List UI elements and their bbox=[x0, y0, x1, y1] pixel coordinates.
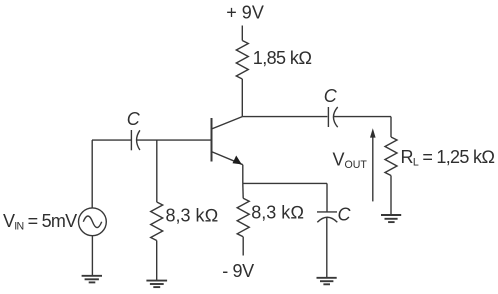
svg-text:1,85 kΩ: 1,85 kΩ bbox=[253, 48, 312, 68]
svg-text:8,3 kΩ: 8,3 kΩ bbox=[166, 206, 219, 226]
wire C3 top lead bbox=[326, 183, 328, 212]
transistor Q1 base bar bbox=[211, 118, 213, 162]
ground (RL) bbox=[381, 215, 401, 222]
svg-text:C: C bbox=[324, 86, 338, 106]
svg-text:8,3 kΩ: 8,3 kΩ bbox=[251, 203, 304, 223]
source VIN circle bbox=[79, 208, 107, 236]
transistor Q1 emitter lead bbox=[212, 152, 243, 165]
resistor R1 1,85 kOhm bbox=[236, 41, 248, 80]
ground (VIN) bbox=[82, 276, 102, 283]
wire emitter down to R3 bbox=[242, 183, 244, 198]
svg-text:RL = 1,25 kΩ: RL = 1,25 kΩ bbox=[401, 147, 495, 169]
wire RL to ground bbox=[390, 176, 392, 215]
resistor R2 8,3 kOhm (base) bbox=[151, 202, 163, 241]
VOUT arrowhead bbox=[370, 128, 376, 137]
ground (C3) bbox=[317, 278, 337, 285]
transistor emitter arrowhead bbox=[233, 156, 242, 165]
wire source to C1 bbox=[92, 139, 131, 141]
wire emitter vertical bbox=[242, 165, 244, 184]
svg-text:C: C bbox=[338, 205, 352, 225]
wire R2 to ground bbox=[156, 241, 158, 281]
wire base horizontal bbox=[136, 139, 211, 141]
svg-text:VOUT: VOUT bbox=[333, 149, 368, 171]
wire source to ground bbox=[91, 236, 93, 276]
VOUT arrow line bbox=[372, 138, 374, 202]
wire junction down to R2 bbox=[156, 140, 158, 202]
capacitor C1 (input coupling) bbox=[131, 130, 140, 150]
svg-text:C: C bbox=[127, 109, 141, 129]
wire collector horizontal bbox=[242, 116, 327, 118]
wire +9V lead bbox=[241, 26, 243, 41]
wire emitter horizontal bbox=[243, 182, 327, 184]
wire R3 to -9V bbox=[242, 237, 244, 256]
svg-text:+ 9V: + 9V bbox=[226, 3, 264, 23]
wire R1 to collector node bbox=[241, 79, 243, 117]
wire left vertical bbox=[91, 140, 93, 208]
resistor R3 8,3 kOhm (emitter) bbox=[237, 198, 249, 237]
ground (R2) bbox=[146, 281, 167, 288]
capacitor C2 (output coupling) bbox=[328, 107, 391, 127]
resistor RL 1,25 kOhm bbox=[385, 137, 397, 176]
svg-text:VIN = 5mV: VIN = 5mV bbox=[3, 211, 77, 233]
source sine wave bbox=[83, 216, 101, 228]
transistor Q1 collector lead bbox=[212, 117, 243, 129]
capacitor C3 (emitter bypass) bbox=[317, 212, 337, 278]
svg-text:- 9V: - 9V bbox=[222, 261, 254, 281]
wire down to RL bbox=[390, 117, 392, 137]
